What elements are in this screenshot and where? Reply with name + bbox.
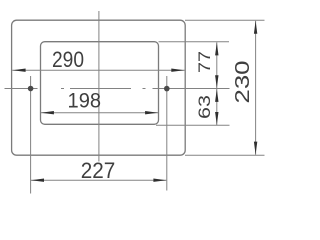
extension line inner-bottom right (156, 124, 230, 126)
dimension line 77 (216, 42, 218, 88)
arrow 63 bottom (215, 112, 218, 125)
arrow 77 top (215, 42, 218, 55)
extension line outer-bottom right (185, 154, 265, 156)
vertical centerline (98, 11, 100, 162)
svg-text:230: 230 (231, 61, 254, 104)
dimension line 63 (216, 89, 218, 125)
svg-text:77: 77 (195, 51, 214, 73)
right hole center vertical line (166, 76, 168, 191)
arrow 290 right (171, 69, 184, 72)
arrow 198 right (145, 111, 158, 114)
inner window outline (41, 42, 159, 125)
extension line outer-top right (185, 19, 265, 21)
left mounting hole (28, 86, 34, 92)
arrow 77 bottom (215, 75, 218, 88)
dimension line 227 (31, 179, 166, 181)
svg-text:198: 198 (68, 89, 102, 112)
arrow 230 bottom (254, 142, 257, 155)
left hole center vertical line (30, 76, 32, 194)
dimension line 290 (12, 69, 185, 71)
arrow 290 left (13, 69, 26, 72)
outer bezel outline (12, 20, 186, 155)
arrow 63 top (215, 89, 218, 102)
arrow 227 left (31, 179, 44, 182)
arrow 198 left (41, 111, 54, 114)
dimension line 198 (41, 112, 158, 114)
extension line inner-top right (159, 41, 230, 43)
svg-text:290: 290 (52, 47, 84, 72)
arrow 227 right (153, 179, 166, 182)
svg-text:227: 227 (81, 158, 116, 183)
right mounting hole (164, 86, 170, 92)
horizontal centerline (dash-dot) (5, 88, 230, 90)
arrow 230 top (254, 21, 257, 34)
svg-text:63: 63 (195, 95, 214, 119)
dimension line 230 (255, 21, 257, 155)
